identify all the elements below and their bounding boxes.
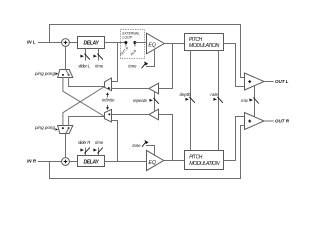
wire loop to EQ L: [135, 42, 147, 44]
VCA infinite R: [105, 109, 112, 122]
pot depth: [185, 98, 189, 101]
svg-text:slider L: slider L: [78, 64, 90, 69]
wire depth: [190, 51, 192, 151]
infinite L control arrow: [107, 95, 109, 98]
external loop box: [121, 30, 145, 59]
wire L same feedback: [69, 78, 105, 87]
svg-text:OUT L: OUT L: [275, 79, 289, 84]
svg-text:DELAY: DELAY: [83, 159, 99, 165]
svg-text:MODULATION: MODULATION: [189, 161, 220, 167]
pot tone R: [146, 146, 155, 156]
wire repeats R to infinite R: [112, 114, 149, 116]
svg-text:depth: depth: [180, 92, 192, 97]
EQ R amp: [147, 150, 164, 170]
pitch modulation L: [185, 34, 224, 51]
delay L: [78, 37, 105, 49]
wire repeats control: [154, 92, 156, 112]
pot slider R: [85, 148, 87, 156]
pot rate: [213, 98, 217, 101]
svg-text:OUT B: OUT B: [119, 46, 130, 57]
svg-text:PITCH: PITCH: [189, 37, 203, 43]
pitch modulation R: [185, 151, 224, 170]
wire mix: [254, 86, 256, 117]
wire delay R to EQ R: [105, 161, 147, 163]
wire OUT L: [264, 81, 274, 83]
wire EQ L to pitch mod L: [164, 43, 184, 45]
ping pong mixer R: [58, 126, 73, 134]
pot slider L: [85, 49, 87, 61]
VCA infinite L: [105, 78, 112, 91]
OUT R amp: [245, 113, 265, 130]
wire dry L top frame: [50, 25, 245, 78]
wire R same feedback: [69, 117, 105, 126]
svg-text:DELAY: DELAY: [83, 41, 99, 47]
summing node L: [62, 39, 70, 47]
EQ L amp: [147, 33, 165, 54]
wire infinite tap R: [112, 121, 118, 162]
OUT L amp: [245, 73, 265, 90]
svg-text:tone: tone: [132, 143, 141, 148]
pot mix: [249, 98, 253, 101]
svg-text:IN L: IN L: [27, 40, 36, 45]
svg-text:PITCH: PITCH: [189, 155, 203, 161]
wire L cross diagonal: [63, 78, 105, 117]
wire feedback tap R: [159, 115, 173, 161]
wire IN L: [38, 42, 62, 44]
wire feedback tap L: [159, 44, 173, 89]
svg-text:ping pong: ping pong: [34, 125, 56, 130]
wire ping pong L up: [65, 46, 67, 69]
svg-text:ping pong: ping pong: [34, 71, 56, 76]
svg-text:OUT R: OUT R: [275, 119, 290, 124]
ping pong R label: [55, 128, 58, 131]
wire delay L out: [105, 42, 126, 44]
pot time R: [98, 148, 100, 156]
svg-text:time: time: [95, 140, 104, 145]
wire R cross diagonal: [63, 87, 105, 126]
svg-text:infinite: infinite: [102, 98, 115, 103]
wire to delay R: [69, 161, 77, 163]
wire EQ R to pitch mod R: [164, 160, 185, 162]
svg-text:LOOP: LOOP: [122, 36, 132, 40]
wire ping pong R down: [65, 134, 67, 158]
repeats amp L: [149, 83, 159, 94]
svg-text:tone: tone: [128, 63, 137, 68]
wire rate: [218, 51, 220, 151]
svg-text:IN B: IN B: [130, 48, 138, 56]
svg-text:IN R: IN R: [27, 158, 37, 163]
svg-text:mix: mix: [241, 98, 249, 103]
svg-text:repeats: repeats: [133, 98, 148, 103]
jack IN B: [134, 43, 136, 47]
ping pong mixer L: [58, 70, 73, 78]
svg-text:MODULATION: MODULATION: [189, 43, 220, 49]
svg-text:slider R: slider R: [78, 140, 90, 145]
wire OUT R: [264, 120, 274, 122]
pot repeats: [149, 99, 153, 102]
ping pong L label: [55, 72, 58, 75]
wire IN R: [38, 161, 62, 163]
wire pitch R out: [224, 117, 245, 161]
svg-text:EQ: EQ: [149, 160, 157, 166]
pot tone L: [146, 49, 155, 67]
wire dry R bottom frame: [50, 126, 245, 179]
pot time L: [98, 49, 100, 61]
svg-text:EQ: EQ: [148, 42, 156, 48]
summing node R: [62, 158, 70, 166]
infinite R control arrow: [107, 105, 109, 108]
wire infinite tap L: [112, 43, 118, 82]
svg-text:time: time: [95, 64, 104, 69]
repeats amp R: [149, 109, 159, 120]
wire pitch L out: [224, 44, 245, 87]
wire repeats L to infinite L: [112, 88, 149, 90]
wire to delay L: [69, 42, 77, 44]
jack OUT B: [125, 43, 127, 47]
svg-text:rate: rate: [210, 92, 218, 97]
delay R: [78, 156, 105, 167]
